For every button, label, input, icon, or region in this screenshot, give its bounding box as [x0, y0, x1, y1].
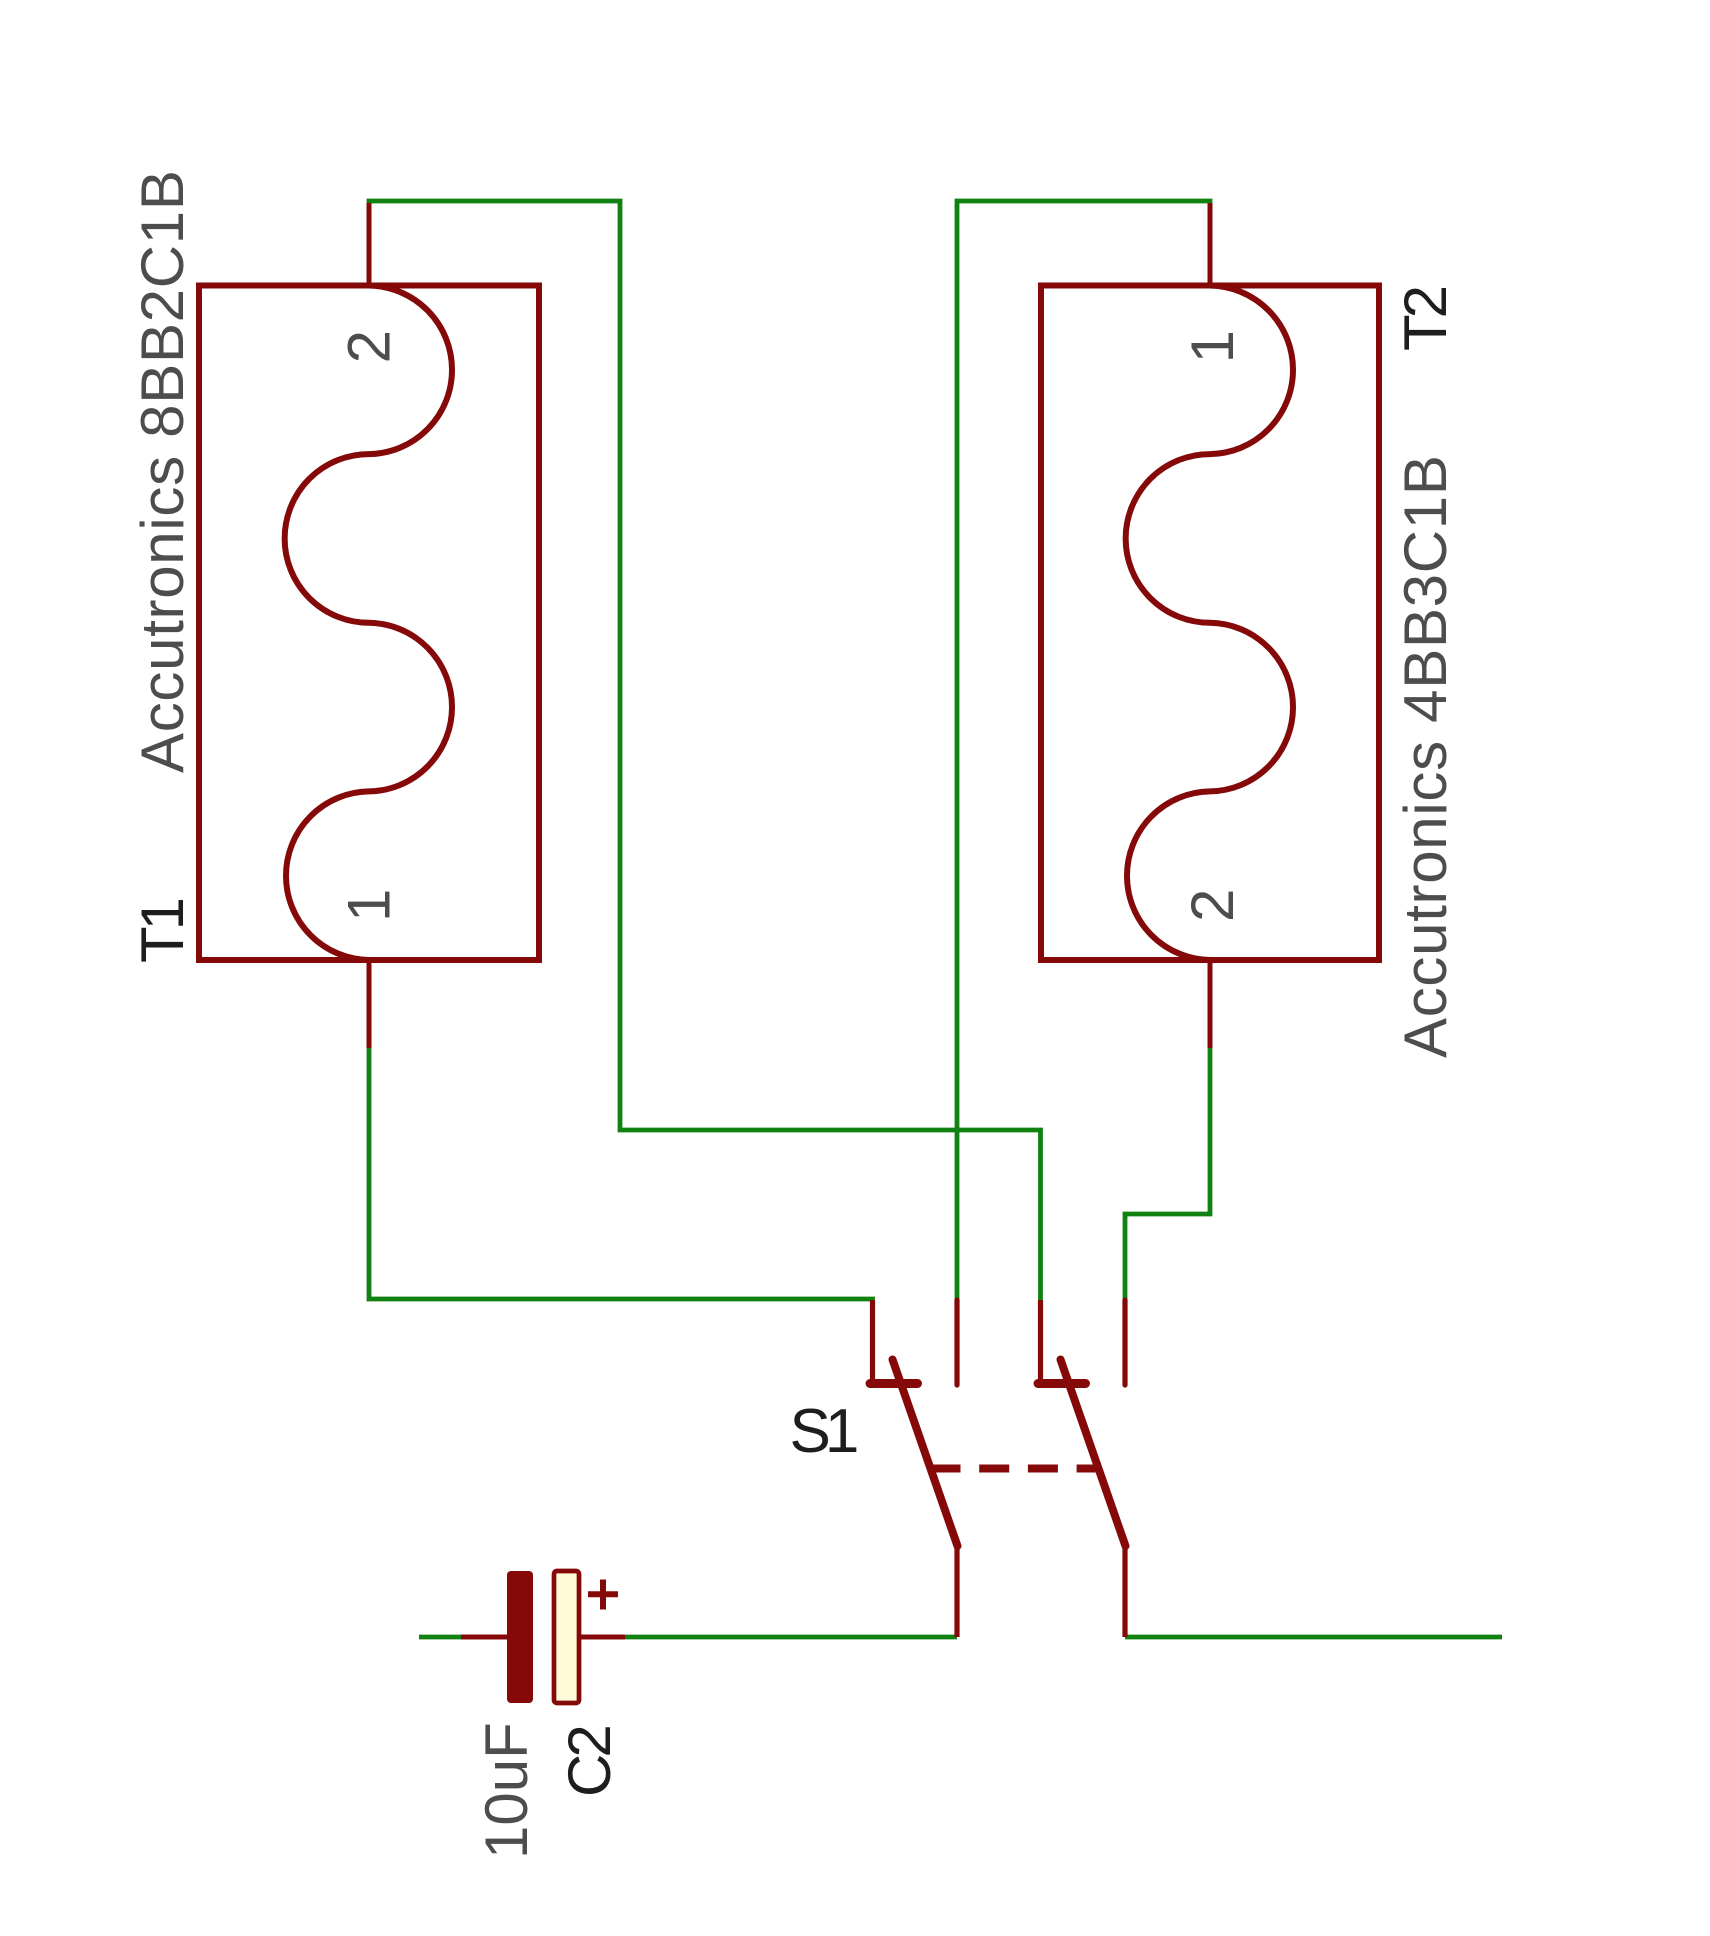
capacitor C2 negative plate: [507, 1571, 533, 1703]
capacitor C2 left lead: [461, 1635, 508, 1640]
transformer T1 body: [199, 286, 539, 961]
T2 pin 1 lead: [1208, 203, 1213, 288]
svg-text:T2: T2: [1392, 287, 1459, 351]
wire S1 common2 to right: [1125, 1635, 1502, 1640]
S1 pole2 arm: [1061, 1360, 1126, 1547]
wire left of C2: [419, 1635, 462, 1640]
svg-text:C2: C2: [556, 1727, 623, 1797]
S1 pole1 throw pin: [954, 1300, 959, 1385]
C2 plus sign: [588, 1580, 618, 1610]
wire T2.1 to S1 pole1 throw: [957, 201, 1210, 1302]
svg-text:Accutronics 8BB2C1B: Accutronics 8BB2C1B: [129, 169, 196, 773]
transformer T2 body: [1041, 286, 1379, 961]
svg-text:S1: S1: [790, 1397, 857, 1466]
S1 gang dashed link: [931, 1465, 1099, 1473]
wire T2.2 to S1 pole2 throw: [1125, 1046, 1210, 1302]
S1 pole2 throw pin: [1122, 1300, 1127, 1385]
capacitor C2 positive plate: [554, 1571, 579, 1703]
S1 pole1 contact pin: [870, 1300, 875, 1384]
svg-text:T1: T1: [129, 899, 196, 963]
S1 pole1 arm: [893, 1360, 958, 1547]
S1 pole1 common pin: [954, 1546, 959, 1637]
S1 pole2 contact bar: [1038, 1379, 1086, 1388]
T2 pin 2 lead: [1208, 957, 1213, 1048]
T1 spring coil: [285, 286, 452, 961]
T2 spring coil: [1126, 286, 1293, 961]
S1 pole2 common pin: [1122, 1546, 1127, 1637]
T1 pin 2 lead: [367, 203, 372, 288]
wire T1.1 to S1 pole1 contact: [369, 1046, 873, 1299]
S1 pole1 contact bar: [870, 1379, 918, 1388]
svg-text:1: 1: [1179, 330, 1246, 363]
T1 pin 1 lead: [367, 957, 372, 1048]
svg-text:2: 2: [336, 330, 403, 363]
S1 pole2 contact pin: [1038, 1300, 1043, 1384]
svg-text:1: 1: [336, 889, 403, 922]
wire T1.2 to S1 pole2 contact: [369, 201, 1041, 1302]
wire C2 to S1 common1: [624, 1635, 957, 1640]
svg-text:2: 2: [1179, 889, 1246, 922]
capacitor C2 right lead: [578, 1635, 625, 1640]
svg-text:10uF: 10uF: [473, 1722, 540, 1859]
svg-text:Accutronics 4BB3C1B: Accutronics 4BB3C1B: [1392, 454, 1459, 1058]
